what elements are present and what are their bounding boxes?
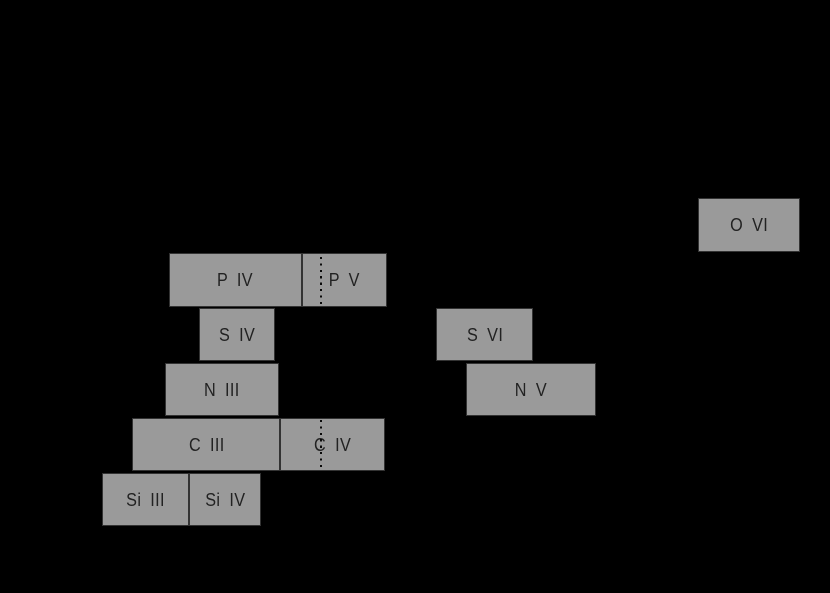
dotted line in P V [320,257,322,306]
box Si III [102,473,189,527]
box Si IV [189,473,261,527]
box P IV [169,253,302,307]
box C III [132,418,280,472]
dotted line in C IV [320,420,322,470]
box P V [302,253,388,307]
box S VI [436,308,533,362]
box N V [466,363,596,417]
box N III [165,363,279,417]
box S IV [199,308,275,362]
box O VI [698,198,800,252]
box C IV [280,418,384,472]
